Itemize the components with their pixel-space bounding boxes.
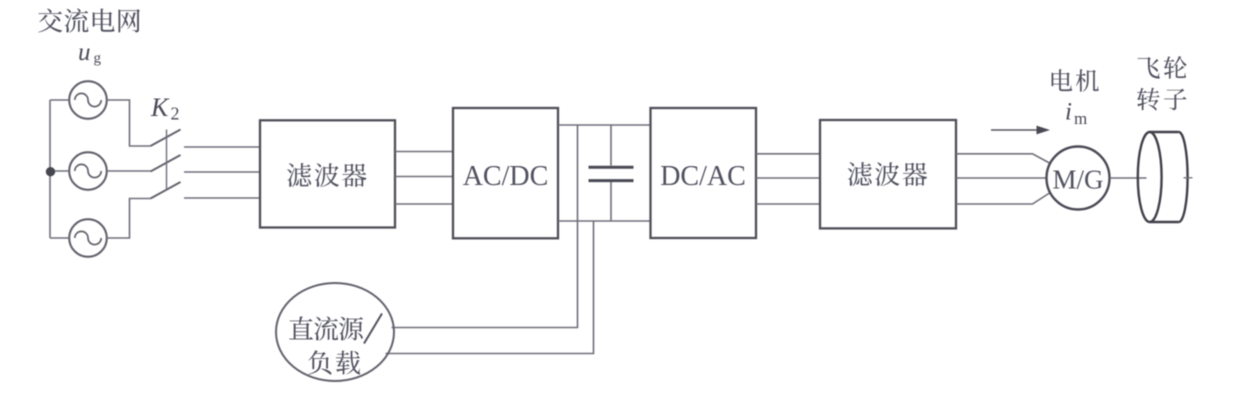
- svg-text:i: i: [1065, 99, 1072, 126]
- wire: filter to M/G phase 3: [956, 193, 1050, 204]
- svg-text:2: 2: [171, 104, 180, 124]
- label 负载 (load): [308, 350, 360, 374]
- wire: shaft M/G to flywheel: [1110, 177, 1147, 179]
- label AC grid 交流电网: [38, 8, 140, 32]
- DC source/load circle: [276, 283, 394, 381]
- wire: filter to AC/DC phase 2: [395, 176, 453, 178]
- wire: DC bus negative rail: [558, 220, 651, 222]
- node: neutral junction dot: [46, 167, 55, 176]
- label 滤波器 (filter 1): [287, 163, 367, 187]
- wire: source B to switch pole 2: [107, 170, 151, 172]
- wire: DC tap negative to source/load: [386, 221, 594, 354]
- svg-text:u: u: [78, 39, 91, 66]
- svg-text:DC/AC: DC/AC: [660, 161, 746, 192]
- label 直流源 (DC source): [289, 316, 363, 340]
- wire: stub bus to source B: [50, 170, 69, 172]
- wire: DC bus positive rail: [558, 124, 651, 126]
- arrow: motor current direction: [991, 129, 1038, 131]
- switch K2 blade pole 2: [151, 155, 181, 172]
- switch K2 blade pole 1: [151, 130, 181, 147]
- svg-text:M/G: M/G: [1052, 165, 1103, 195]
- wire: switch to filter phase 3: [184, 197, 260, 199]
- wire: filter to AC/DC phase 1: [395, 151, 453, 153]
- wire: DC/AC to filter phase 2: [756, 177, 820, 179]
- AC source phase C: [69, 219, 107, 257]
- wire: filter to AC/DC phase 3: [395, 203, 453, 205]
- svg-text:AC/DC: AC/DC: [463, 161, 549, 192]
- block: output filter 滤波器: [820, 120, 956, 228]
- wire: DC/AC to filter phase 3: [756, 203, 820, 205]
- switch K2 mechanical link: [166, 130, 168, 191]
- wire: filter to M/G phase 2: [956, 177, 1046, 179]
- motor/generator M/G: [1047, 147, 1110, 210]
- svg-text:g: g: [94, 51, 102, 67]
- wire: switch to filter phase 2: [184, 171, 260, 173]
- svg-text:K: K: [150, 93, 170, 122]
- svg-text:m: m: [1074, 109, 1087, 128]
- capacitor: DC-link C plates: [589, 167, 634, 180]
- wire: source C to switch pole 3: [107, 199, 151, 239]
- wire: DC tap positive to source/load: [392, 125, 578, 328]
- wire: DC/AC to filter phase 1: [756, 153, 820, 155]
- wire: stub bus to source C: [50, 237, 69, 239]
- flywheel rotor cylinder: [1138, 132, 1188, 222]
- label 转子 (rotor): [1137, 88, 1186, 111]
- wire: left phase bus vertical: [49, 100, 51, 238]
- block: input filter 滤波器: [260, 120, 395, 227]
- wire: stub bus to source A: [50, 99, 69, 101]
- wire: source A to switch pole 1: [107, 100, 151, 146]
- wire: switch to filter phase 1: [184, 146, 260, 148]
- wire: filter to M/G phase 1: [956, 154, 1050, 163]
- label 飞轮 (flywheel): [1138, 56, 1187, 79]
- label slash of 直流源/: [364, 314, 382, 344]
- flywheel axis tick: [1184, 177, 1193, 179]
- label 滤波器 (filter 2): [848, 162, 928, 186]
- block: DC/AC converter: [651, 108, 757, 238]
- AC source phase B: [69, 152, 107, 190]
- label 电机 (motor): [1052, 69, 1099, 92]
- capacitor: DC-link C leads: [610, 125, 612, 221]
- AC source phase A: [69, 81, 107, 119]
- block: AC/DC converter: [453, 108, 558, 238]
- switch K2 blade pole 3: [151, 182, 181, 199]
